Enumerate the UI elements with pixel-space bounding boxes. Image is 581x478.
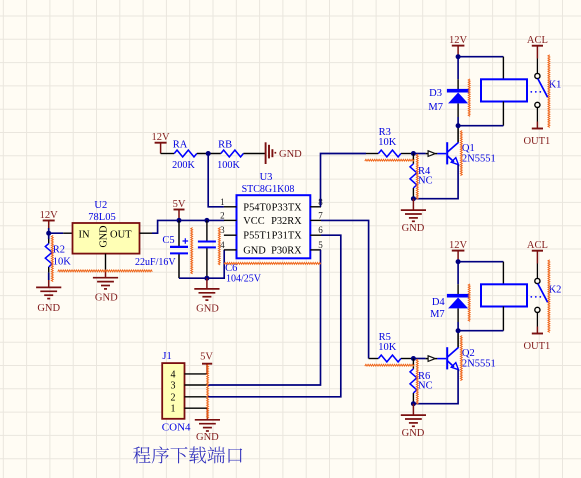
wire 12V branch to relay K1 coil — [458, 56, 503, 58]
pin 3 J1 — [171, 381, 208, 392]
svg-text:ACL: ACL — [527, 240, 548, 251]
svg-text:12V: 12V — [449, 35, 468, 46]
resistor RA — [174, 150, 197, 157]
pin 5 U3 (right) — [310, 240, 323, 250]
wire 12V to D3 anode side — [457, 57, 459, 79]
svg-text:VCC: VCC — [243, 216, 264, 227]
voltage regulator U2 78L05 body — [73, 223, 140, 254]
resistor R3 — [366, 150, 413, 157]
svg-text:104/25V: 104/25V — [226, 273, 262, 284]
input arrow at Q1 base — [426, 151, 438, 157]
junction — [411, 196, 416, 201]
power ACL (K1) — [527, 35, 548, 58]
junction — [456, 328, 461, 333]
ERC marker (R2) — [51, 235, 53, 281]
junction — [206, 151, 211, 156]
svg-text:GND: GND — [95, 293, 118, 304]
wire Q1 emitter to GND rail — [413, 165, 458, 199]
ERC marker (under U2 GND) — [58, 270, 153, 272]
svg-text:P32RX: P32RX — [271, 216, 302, 227]
junction — [411, 151, 416, 156]
pin U2 GND — [105, 254, 107, 270]
svg-text:K2: K2 — [549, 284, 562, 295]
pin relay K1 coil top — [502, 57, 504, 80]
resistor R5 — [369, 355, 414, 362]
wire U3 pin 5 to J1 pin 3 — [207, 250, 320, 385]
svg-text:OUT: OUT — [110, 229, 132, 240]
pin 2 U3 (left) — [220, 210, 236, 220]
svg-text:RA: RA — [173, 139, 188, 150]
capacitor C5 (electrolytic) — [170, 220, 188, 278]
svg-text:4: 4 — [171, 369, 176, 380]
input arrow at Q2 base — [426, 356, 438, 362]
svg-text:P55T1: P55T1 — [243, 231, 271, 242]
svg-text:2N5551: 2N5551 — [462, 154, 496, 165]
pin 1 J1 — [171, 404, 208, 415]
transistor Q1 2N5551 — [437, 142, 458, 165]
pin U2 OUT — [140, 232, 153, 234]
wire Q1 collector — [457, 126, 459, 143]
wire 12V branch to relay K2 coil — [458, 261, 503, 263]
svg-text:C6: C6 — [225, 263, 237, 274]
svg-text:GND: GND — [402, 223, 425, 234]
ERC marker (under U3) — [224, 263, 321, 265]
svg-text:P30RX: P30RX — [271, 245, 302, 256]
junction — [456, 259, 461, 264]
power OUT1 (K1) — [523, 122, 550, 148]
pin 4 U3 (left) — [220, 240, 236, 250]
pin 3 U3 (left) — [220, 225, 236, 235]
ground GND (below R2) — [36, 280, 61, 314]
ERC marker (C6 / U3 pin3) — [218, 228, 220, 265]
power 12V (input left) — [40, 210, 59, 229]
svg-text:1: 1 — [171, 404, 176, 415]
ERC marker (Q2) — [460, 336, 462, 381]
svg-text:R2: R2 — [53, 245, 65, 256]
wire D3 cathode to collector node — [457, 117, 459, 126]
relay K2 coil — [481, 284, 527, 306]
connector J1 CON4 body — [162, 363, 184, 419]
pin relay K2 coil top — [502, 262, 504, 285]
svg-text:RB: RB — [218, 139, 232, 150]
svg-text:3: 3 — [220, 225, 225, 235]
svg-text:GND: GND — [279, 149, 302, 160]
wire RB to GND port — [243, 153, 265, 155]
wire U3 pin 7 to R5 — [321, 220, 369, 358]
pin 4 J1 — [171, 369, 208, 380]
ground GND (below C6) — [194, 278, 219, 314]
ground GND port (horizontal, right of RB) — [266, 142, 303, 164]
svg-text:1: 1 — [220, 197, 225, 207]
svg-text:5V: 5V — [200, 352, 213, 363]
wire GND rail under C5 C6 to U3 GND pin — [179, 250, 224, 278]
svg-text:4: 4 — [220, 240, 225, 250]
svg-text:5: 5 — [318, 240, 323, 250]
svg-text:10K: 10K — [378, 342, 397, 353]
svg-text:P33TX: P33TX — [272, 202, 303, 213]
transistor Q2 2N5551 — [437, 347, 458, 370]
svg-text:12V: 12V — [152, 132, 171, 143]
wire U3 pin 6 to J1 pin 2 — [207, 235, 340, 397]
capacitor C6 — [198, 220, 216, 278]
svg-text:U3: U3 — [260, 172, 273, 183]
svg-text:U2: U2 — [94, 200, 107, 211]
junction — [46, 231, 51, 236]
ERC marker (under R5) — [365, 364, 415, 366]
svg-text:P54T0: P54T0 — [243, 202, 271, 213]
junction — [204, 276, 209, 281]
relay K1 contact (SPST) — [530, 59, 547, 122]
svg-text:78L05: 78L05 — [88, 212, 115, 223]
svg-text:GND: GND — [98, 225, 109, 247]
power 12V (K1) — [449, 35, 468, 57]
svg-text:D3: D3 — [429, 88, 442, 99]
svg-text:GND: GND — [196, 304, 219, 315]
wire 12V node to U2 IN / R2 — [49, 228, 64, 239]
ERC marker (Q1) — [460, 131, 462, 176]
ground GND (below U2) — [93, 270, 118, 304]
resistor R2 — [45, 239, 52, 273]
ground GND (below Q1) — [401, 199, 426, 234]
svg-text:2: 2 — [171, 392, 176, 403]
wire Q2 emitter to GND rail — [413, 370, 458, 404]
wire Q2 collector — [457, 331, 459, 348]
pin 1 U3 (left) — [220, 197, 236, 207]
power 5V (rail) — [173, 199, 186, 221]
text label: program download port (Chinese) — [133, 446, 242, 463]
wire U2 OUT to 5V rail and U3 VCC — [152, 220, 224, 233]
diode D3 M7 (flyback) — [447, 79, 469, 117]
ERC marker (K2 contact) — [548, 260, 550, 333]
wire 12V to D4 anode side — [457, 262, 459, 285]
wire 12V to RA — [161, 153, 175, 155]
svg-text:7: 7 — [318, 210, 323, 220]
svg-text:2: 2 — [220, 210, 225, 220]
svg-text:M7: M7 — [428, 102, 443, 113]
resistor R6 — [410, 359, 417, 404]
wire coil bottom to collector node — [458, 330, 503, 332]
svg-text:12V: 12V — [449, 240, 468, 251]
wire R2 to GND — [48, 273, 50, 280]
svg-text:Q1: Q1 — [462, 143, 475, 154]
power 12V (RA) — [152, 132, 171, 153]
svg-text:22uF/16V: 22uF/16V — [135, 257, 176, 268]
junction — [204, 218, 209, 223]
svg-text:P31TX: P31TX — [272, 231, 303, 242]
resistor RB — [221, 150, 244, 157]
svg-text:NC: NC — [418, 381, 433, 392]
pin 6 U3 (right) — [310, 225, 323, 235]
svg-text:C5: C5 — [162, 235, 174, 246]
svg-text:D4: D4 — [432, 297, 446, 308]
svg-text:OUT1: OUT1 — [523, 136, 550, 147]
svg-text:NC: NC — [418, 176, 433, 187]
pin 2 J1 — [171, 392, 208, 403]
svg-text:5V: 5V — [173, 199, 186, 210]
junction — [177, 218, 182, 223]
ERC marker (D3) — [468, 79, 470, 116]
diode D4 M7 (flyback) — [447, 284, 469, 322]
wire U3 pin 8 to R3 — [321, 154, 367, 207]
ERC marker (C5) — [191, 228, 193, 274]
ERC marker (K1 contact) — [548, 55, 550, 128]
svg-text:R3: R3 — [379, 127, 391, 138]
svg-text:12V: 12V — [40, 210, 59, 221]
ERC marker (D4) — [468, 284, 470, 321]
svg-text:3: 3 — [171, 381, 176, 392]
svg-text:IN: IN — [78, 229, 89, 240]
svg-text:K1: K1 — [549, 79, 562, 90]
pin 7 U3 (right) — [310, 210, 323, 220]
svg-text:M7: M7 — [430, 309, 445, 320]
ERC marker (under R3) — [365, 159, 415, 161]
resistor R4 — [410, 154, 417, 199]
wire D4 cathode to collector node — [457, 322, 459, 331]
power 12V (K2) — [449, 240, 468, 262]
relay K2 contact (SPST) — [530, 264, 547, 327]
pin 8 U3 (right) — [310, 197, 323, 207]
junction — [456, 54, 461, 59]
power ACL (K2) — [527, 240, 548, 263]
svg-text:STC8G1K08: STC8G1K08 — [242, 184, 295, 195]
svg-text:GND: GND — [196, 432, 219, 443]
svg-text:100K: 100K — [217, 160, 240, 171]
wire RA to RB node — [197, 153, 221, 155]
svg-text:CON4: CON4 — [162, 421, 191, 433]
power 5V (J1 pin4) — [200, 352, 213, 374]
svg-text:ACL: ACL — [527, 35, 548, 46]
IC U3 STC8G1K08 body — [237, 195, 311, 258]
svg-text:OUT1: OUT1 — [523, 341, 550, 352]
svg-text:10K: 10K — [378, 137, 397, 148]
junction — [411, 356, 416, 361]
ERC marker (J1) — [207, 365, 209, 419]
svg-text:2N5551: 2N5551 — [462, 359, 496, 370]
svg-text:GND: GND — [243, 245, 266, 256]
ground GND (below Q2) — [401, 404, 426, 439]
svg-text:Q2: Q2 — [462, 348, 475, 359]
svg-text:6: 6 — [318, 225, 323, 235]
svg-text:GND: GND — [402, 428, 425, 439]
svg-text:200K: 200K — [172, 160, 195, 171]
pin relay K1 coil bottom — [502, 102, 504, 126]
wire R5 to Q2 base — [413, 358, 425, 360]
ground GND (J1 pin1) — [195, 408, 220, 443]
svg-text:10K: 10K — [53, 257, 72, 268]
ERC marker (R4) — [416, 154, 418, 199]
power OUT1 (K2) — [523, 327, 550, 353]
relay K1 coil — [481, 79, 527, 101]
wire R3 to Q1 base — [413, 153, 425, 155]
svg-text:J1: J1 — [162, 351, 171, 362]
svg-text:GND: GND — [37, 303, 60, 314]
wire RA-RB node to U3 pin 1 — [208, 154, 224, 207]
pin U2 IN — [63, 232, 72, 234]
junction — [456, 123, 461, 128]
wire coil bottom to collector node — [458, 125, 503, 127]
svg-text:R5: R5 — [379, 332, 391, 343]
pin relay K2 coil bottom — [502, 307, 504, 331]
junction — [411, 401, 416, 406]
ERC marker (R6) — [416, 359, 418, 404]
